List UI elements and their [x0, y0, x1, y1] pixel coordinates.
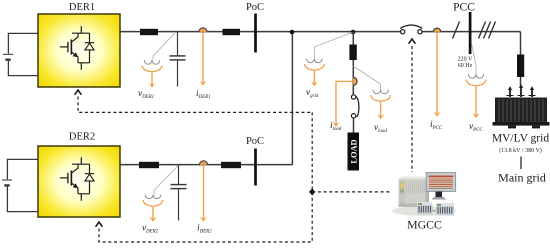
- svg-text:DER1: DER1: [69, 2, 95, 13]
- node MGCC junction: [309, 188, 315, 195]
- svg-text:iPCC: iPCC: [430, 120, 443, 131]
- converter DER1 box: [38, 14, 120, 87]
- transformer MV/LV: [493, 84, 550, 128]
- switch main contact B: [418, 30, 422, 34]
- slash single-phase: [453, 22, 460, 39]
- tap line v_DER1: [153, 33, 175, 60]
- inductor L1: [140, 29, 158, 35]
- load branch wire: [352, 32, 354, 95]
- capacitor C2: [171, 165, 187, 221]
- svg-text:vDER1: vDER1: [138, 89, 154, 100]
- wire to load: [353, 118, 355, 133]
- impedance Z_load: [349, 45, 356, 61]
- svg-text:PCC: PCC: [453, 2, 475, 14]
- arrow i_load: [336, 81, 353, 123]
- dashed switch control: [411, 46, 413, 172]
- arrow v_PCC: [475, 87, 477, 115]
- tap line v_DER2: [154, 165, 179, 194]
- sensor node i_DER1: [199, 28, 207, 32]
- wire drop to transformer: [520, 32, 522, 55]
- line to main grid: [520, 157, 522, 170]
- svg-text:PoC: PoC: [246, 2, 264, 13]
- VT v_DER1: [142, 60, 162, 72]
- wire row1 main: [120, 31, 401, 33]
- node junction load branch: [351, 30, 356, 35]
- impedance Z_grid: [517, 55, 524, 78]
- switch main contact A: [401, 30, 405, 34]
- tap line v_grid: [314, 32, 353, 58]
- dashed riser to MGCC node: [311, 112, 313, 242]
- bus PoC2: [254, 149, 257, 186]
- arrow v_load: [380, 102, 382, 116]
- IGBT Q2: [60, 157, 90, 201]
- VT v_load: [371, 90, 391, 102]
- arrow v_DER2: [152, 207, 154, 218]
- arrow v_grid: [313, 71, 315, 83]
- battery B2: [2, 159, 38, 211]
- dashed MGCC to node: [312, 191, 392, 193]
- svg-text:iDER1: iDER1: [196, 89, 211, 100]
- svg-text:Main grid: Main grid: [498, 171, 546, 185]
- diode D2: [85, 164, 94, 194]
- LOAD box: [348, 133, 360, 171]
- MGCC equipment: [392, 173, 456, 217]
- svg-text:DER2: DER2: [69, 132, 95, 143]
- wire row2 main: [120, 164, 293, 166]
- tap line v_PCC: [472, 43, 477, 74]
- diode D1: [85, 33, 94, 63]
- arrow v_DER1: [151, 73, 153, 85]
- svg-text:vPCC: vPCC: [469, 122, 483, 133]
- VT v_DER2: [143, 195, 163, 207]
- tap line v_load: [353, 66, 381, 89]
- dashed DER2 control: [99, 229, 312, 243]
- svg-text:MV/LV grid: MV/LV grid: [492, 133, 549, 145]
- node junction row1-riser: [290, 30, 295, 35]
- arrow i_DER2: [203, 165, 205, 218]
- arrowhead DER1 control: [75, 90, 82, 95]
- VT v_PCC: [466, 74, 486, 86]
- slash three-phase: [479, 22, 496, 39]
- svg-text:PoC: PoC: [246, 136, 264, 147]
- impedance Z1: [223, 29, 241, 35]
- switch main blade: [400, 25, 422, 28]
- arrow i_PCC: [436, 32, 438, 113]
- IGBT Q1: [60, 26, 90, 70]
- wire row1 right of switch: [421, 31, 521, 33]
- sensor node i_DER2: [199, 161, 207, 165]
- svg-text:iDER2: iDER2: [197, 224, 212, 235]
- IGBT Q2 emitter arrow: [73, 183, 79, 188]
- wire to transformer: [520, 77, 522, 86]
- converter DER2 box: [38, 146, 120, 217]
- sensor node i_PCC: [433, 28, 441, 32]
- bus PoC1: [254, 14, 257, 53]
- bus PCC: [469, 12, 472, 54]
- arrowhead DER2 control: [96, 222, 103, 227]
- svg-text:vDER2: vDER2: [142, 224, 159, 235]
- dashed DER1 control: [78, 97, 312, 113]
- battery B1: [3, 33, 38, 75]
- switch load blade: [356, 97, 359, 118]
- svg-text:220 V: 220 V: [458, 57, 473, 63]
- svg-text:60 Hz: 60 Hz: [458, 63, 473, 69]
- arrow i_DER1: [202, 32, 204, 82]
- sensor node i_load: [353, 77, 357, 85]
- svg-text:MGCC: MGCC: [407, 218, 442, 232]
- impedance Z2: [221, 162, 241, 168]
- IGBT Q1 emitter arrow: [73, 52, 79, 57]
- svg-text:vload: vload: [374, 123, 387, 134]
- VT v_grid: [305, 59, 325, 71]
- svg-text:(13.8 kV / 380 V): (13.8 kV / 380 V): [499, 147, 542, 154]
- switch load contacts: [351, 95, 355, 118]
- svg-text:LOAD: LOAD: [349, 139, 358, 163]
- capacitor C1: [170, 32, 186, 87]
- svg-text:vgrid: vgrid: [306, 88, 319, 99]
- inductor L2: [139, 162, 159, 168]
- wire riser DER2 to row1: [291, 32, 293, 165]
- arrowhead switch control: [409, 39, 416, 44]
